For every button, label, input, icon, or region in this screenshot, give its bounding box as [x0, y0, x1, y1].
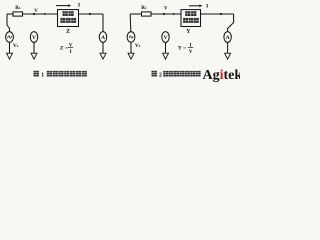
wire: fig2 left rail down to source: [129, 14, 132, 32]
fraction bar Z=V/I (fig1): [68, 47, 73, 49]
wire: fig2 top rail left segment: [130, 13, 141, 15]
wire: source to ground stub (fig1): [9, 42, 11, 53]
wire: fig1 top rail left segment: [7, 13, 13, 15]
DUT box text line1 (fig1): two CJK glyph blobs: [63, 11, 68, 16]
svg-text:A: A: [226, 35, 230, 41]
wire: right rail down to ammeter (fig1): [102, 14, 104, 32]
svg-text:V: V: [34, 9, 38, 14]
svg-text:Z: Z: [66, 29, 70, 35]
node V junction dot (fig2): [163, 13, 165, 15]
DUT box text line1 (fig2): [185, 11, 190, 16]
svg-text:I: I: [206, 4, 208, 10]
svg-text:V: V: [32, 35, 36, 41]
source Vs circle (fig2): [127, 32, 135, 43]
wire: ammeter to ground stub (fig1): [102, 42, 104, 53]
node V junction dot (fig1): [33, 13, 35, 15]
ammeter A circle (fig1): [99, 32, 106, 43]
ground (fig1 ammeter): [100, 53, 106, 59]
wire: fig1 left rail down to source: [7, 14, 10, 32]
svg-text:1: 1: [41, 72, 44, 78]
voltmeter V circle (fig1): [30, 32, 37, 43]
caption figure 2: 图2 + 7 CJK blobs: [152, 71, 157, 77]
DUT box (fig1): [58, 10, 79, 27]
wire: resistor to node V (fig2): [151, 13, 181, 15]
wire: resistor to node V (fig1): [23, 13, 58, 15]
ground (fig2 voltmeter): [163, 53, 169, 59]
caption figure 1: 图1 + 7 CJK blobs: [34, 71, 39, 77]
DUT box text line2 (fig1): three CJK glyph blobs: [60, 18, 65, 23]
wire: source to ground stub (fig2): [130, 42, 132, 53]
wire: ammeter to ground stub (fig2): [227, 42, 229, 53]
ground (fig2 ammeter): [225, 53, 231, 59]
junction dot right wire (fig2): [220, 13, 222, 15]
wire: voltmeter to ground stub (fig1): [33, 42, 35, 53]
resistor Rs (fig1): [13, 12, 23, 16]
ammeter A circle (fig2): [224, 32, 231, 43]
svg-text:A: A: [101, 35, 105, 41]
current arrowhead on wire (fig1): [44, 13, 47, 15]
svg-text:Y =: Y =: [178, 45, 186, 51]
resistor Rs (fig2): [142, 12, 152, 16]
voltmeter V circle (fig2): [162, 32, 169, 43]
current arrow I above box (fig2): [189, 5, 200, 7]
svg-text:V: V: [163, 35, 167, 41]
ground (fig1 voltmeter): [31, 53, 37, 59]
svg-text:I: I: [70, 49, 72, 55]
source Vs circle (fig1): [6, 32, 14, 43]
svg-text:Agitek: Agitek: [203, 68, 241, 83]
wire: box to right corner (fig1): [79, 13, 104, 15]
fraction bar Y=I/V (fig2): [188, 47, 193, 49]
wire: right rail down to ammeter (fig2): [228, 14, 234, 32]
svg-text:V: V: [189, 49, 193, 55]
DUT box text line2 (fig2): [183, 18, 188, 23]
svg-text:2: 2: [159, 72, 162, 78]
ground (fig2 source): [128, 53, 134, 59]
current arrowhead on wire (fig2): [173, 13, 176, 15]
svg-text:I: I: [78, 3, 80, 9]
current arrow I above box (fig1): [56, 5, 68, 7]
svg-text:Z =: Z =: [60, 45, 68, 51]
wire: box to right corner (fig2): [201, 13, 234, 15]
wire: voltmeter to ground stub (fig2): [165, 42, 167, 53]
DUT box (fig2): [181, 10, 201, 27]
svg-text:V: V: [164, 6, 168, 11]
ground (fig1 source): [7, 53, 13, 59]
junction dot right wire (fig1): [89, 13, 91, 15]
